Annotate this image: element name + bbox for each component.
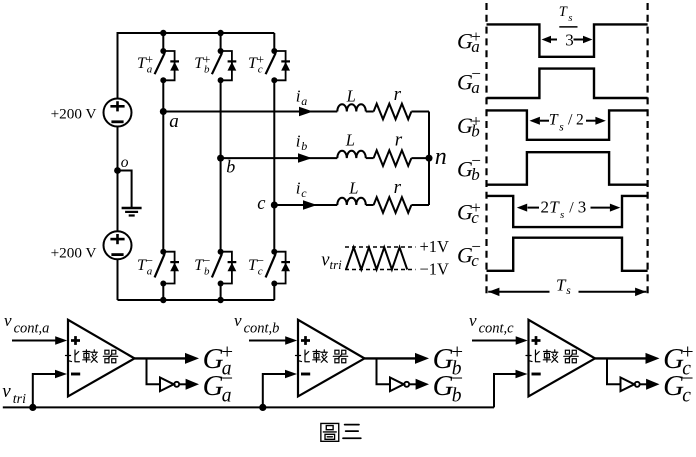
svg-text:b: b xyxy=(471,165,480,184)
label Gb- xyxy=(433,366,464,407)
node a xyxy=(160,108,167,115)
dashed boundary line right xyxy=(646,3,648,296)
svg-text:b: b xyxy=(452,386,462,407)
label +200 V (upper source) xyxy=(51,106,97,123)
antiparallel diode of Ta- xyxy=(170,262,179,271)
label r xyxy=(394,84,402,105)
node b xyxy=(217,155,224,162)
antiparallel diode of Ta+ xyxy=(170,61,179,70)
label Gc- xyxy=(457,237,481,270)
junction dot top rail leg b xyxy=(217,30,223,36)
ground symbol xyxy=(122,208,142,216)
label v_cont,b xyxy=(234,311,279,337)
svg-text:tri: tri xyxy=(330,257,343,272)
antiparallel diode of Tc+ xyxy=(281,61,290,70)
wire b to n bus xyxy=(411,157,429,159)
svg-text:c: c xyxy=(257,194,266,214)
svg-text:r: r xyxy=(394,84,402,105)
dimension Ts full period xyxy=(488,276,646,298)
label v_cont,a xyxy=(4,311,49,337)
wire neutral vertical xyxy=(428,112,430,206)
svg-text:c: c xyxy=(471,251,479,270)
svg-text:a: a xyxy=(471,78,480,97)
wire leg a lower stub xyxy=(162,284,164,301)
svg-text:3: 3 xyxy=(578,198,587,217)
svg-text:/: / xyxy=(568,112,573,129)
waveform Gc+ xyxy=(487,196,648,227)
label +200 V (lower source) xyxy=(51,244,97,261)
switch Ta- xyxy=(155,249,175,287)
wire c to n bus xyxy=(411,204,429,206)
svg-text:c: c xyxy=(258,265,263,277)
svg-text:T: T xyxy=(549,198,560,217)
waveform Gb- xyxy=(487,152,648,185)
svg-text:a: a xyxy=(301,94,307,108)
junction dot v_tri to comparator a xyxy=(29,404,36,411)
current arrow i_a xyxy=(299,107,313,116)
dashed boundary line left xyxy=(485,3,487,296)
svg-text:b: b xyxy=(204,265,210,277)
label c xyxy=(257,194,266,214)
svg-text:+1V: +1V xyxy=(420,237,450,256)
label Gb+ xyxy=(433,340,464,380)
label i_b xyxy=(296,131,308,153)
dimension 2Ts/3 xyxy=(517,198,621,222)
wire left branch upper xyxy=(117,32,119,99)
label Gc+ xyxy=(457,198,481,227)
svg-text:r: r xyxy=(394,177,402,198)
svg-text:s: s xyxy=(568,13,572,24)
waveform Ga+ xyxy=(487,24,648,56)
label a xyxy=(169,111,179,132)
label b xyxy=(226,157,235,177)
svg-text:i: i xyxy=(296,178,301,197)
wire to ground xyxy=(118,171,132,208)
waveform Gc- xyxy=(487,238,648,271)
label L xyxy=(348,178,358,197)
voltage source V1 +200V xyxy=(104,99,132,127)
node c xyxy=(271,202,278,209)
wire top DC rail xyxy=(118,32,275,34)
label Ga- xyxy=(203,366,234,407)
svg-text:b: b xyxy=(471,122,480,141)
antiparallel diode of Tb+ xyxy=(228,61,237,70)
svg-text:−1V: −1V xyxy=(420,260,450,279)
caption Figure 3 (san) xyxy=(343,425,361,439)
svg-text:b: b xyxy=(204,63,210,75)
node n xyxy=(426,155,433,162)
triangular carrier wave xyxy=(346,247,407,269)
v_tri -1V dashed level xyxy=(345,269,416,271)
v_tri +1V dashed level xyxy=(345,246,416,248)
svg-text:a: a xyxy=(169,111,179,132)
resistor r xyxy=(366,104,412,120)
svg-text:+200 V: +200 V xyxy=(51,244,97,261)
op-amp comparator (b) xyxy=(298,320,365,397)
label -1V xyxy=(420,260,450,279)
svg-text:s: s xyxy=(566,285,571,297)
wire leg c upper stub xyxy=(273,33,275,51)
label Ga+ xyxy=(457,27,481,56)
wire left branch lower xyxy=(117,259,119,300)
svg-text:T: T xyxy=(549,112,559,129)
label Ga+ xyxy=(203,340,234,380)
svg-text:c: c xyxy=(301,186,307,200)
label L xyxy=(346,86,356,105)
logic inverter (c) xyxy=(621,378,660,392)
caption Figure 3 (tu) xyxy=(321,423,339,441)
junction dot bottom rail leg b xyxy=(217,297,223,303)
wire leg c middle xyxy=(273,80,275,251)
junction dot top rail leg a xyxy=(160,30,166,36)
wire leg b upper stub xyxy=(220,33,222,51)
current arrow i_b xyxy=(298,153,312,163)
label comparator text (c) xyxy=(526,350,578,363)
label Tb- xyxy=(194,253,210,277)
svg-text:2: 2 xyxy=(576,112,584,129)
branch wire to inverter (b) xyxy=(377,358,390,384)
switch Tc- xyxy=(266,249,286,287)
label i_a xyxy=(296,86,308,108)
label i_c xyxy=(296,178,308,200)
branch wire to inverter (c) xyxy=(607,358,620,384)
label Gb- xyxy=(457,151,481,184)
label comparator text (b) xyxy=(295,350,347,363)
junction dot bottom rail leg a xyxy=(160,297,166,303)
label r xyxy=(395,130,403,151)
output wire Ga+ xyxy=(135,353,200,364)
svg-text:tri: tri xyxy=(13,392,26,407)
wire leg b middle xyxy=(220,80,222,251)
svg-text:/: / xyxy=(569,200,574,217)
waveform Gb+ xyxy=(487,110,648,139)
label Ta- xyxy=(137,253,153,277)
current arrow i_c xyxy=(303,200,317,210)
switch Ta+ xyxy=(155,48,175,83)
svg-text:s: s xyxy=(559,122,564,134)
svg-text:2: 2 xyxy=(541,198,550,217)
svg-text:s: s xyxy=(560,209,564,221)
svg-text:i: i xyxy=(296,131,301,150)
svg-text:a: a xyxy=(222,386,232,407)
wire v_tri to comparator c minus input xyxy=(494,370,528,408)
antiparallel diode of Tc- xyxy=(281,262,290,271)
label Ta+ xyxy=(137,52,153,76)
svg-text:L: L xyxy=(348,178,358,197)
op-amp comparator (c) xyxy=(529,320,596,397)
svg-text:b: b xyxy=(301,139,307,153)
svg-text:v: v xyxy=(2,381,11,402)
wire leg a upper stub xyxy=(162,33,164,51)
input arrow v_cont,a xyxy=(12,336,67,345)
svg-text:a: a xyxy=(147,265,153,277)
op-amp comparator (a) xyxy=(68,320,135,397)
output wire Gc+ xyxy=(595,353,660,364)
label Gc- xyxy=(663,366,694,407)
dimension Ts/2 xyxy=(530,112,606,134)
label comparator text (a) xyxy=(65,350,117,363)
switch Tb+ xyxy=(212,48,232,83)
wire bottom DC rail xyxy=(118,299,275,301)
wire leg c lower stub xyxy=(273,284,275,301)
resistor r xyxy=(366,197,412,213)
label +1V xyxy=(420,237,450,256)
wire phase c output xyxy=(274,204,337,206)
voltage source V2 +200V xyxy=(104,231,132,259)
label Gc+ xyxy=(663,340,694,380)
wire phase b output xyxy=(221,157,338,159)
node o xyxy=(114,167,121,174)
svg-text:c: c xyxy=(682,386,691,407)
svg-text:T: T xyxy=(559,4,568,20)
svg-text:n: n xyxy=(435,144,447,170)
svg-text:v: v xyxy=(234,311,242,330)
label r xyxy=(394,177,402,198)
svg-text:o: o xyxy=(121,154,129,171)
waveform Ga- xyxy=(487,69,648,98)
label Tb+ xyxy=(194,52,210,76)
svg-text:L: L xyxy=(346,86,356,105)
wire leg a middle xyxy=(162,80,164,251)
logic inverter (b) xyxy=(390,378,429,392)
resistor r xyxy=(366,150,412,166)
svg-text:L: L xyxy=(345,131,355,150)
wire v_tri bus xyxy=(3,406,494,408)
label Tc+ xyxy=(248,52,264,76)
label o xyxy=(121,154,129,171)
svg-text:cont,b: cont,b xyxy=(244,321,280,337)
logic inverter (a) xyxy=(160,378,199,392)
svg-text:i: i xyxy=(296,86,301,105)
wire a to n bus xyxy=(411,111,429,113)
inductor L xyxy=(337,104,366,111)
antiparallel diode of Tb- xyxy=(228,262,237,271)
svg-text:v: v xyxy=(469,311,477,330)
svg-text:a: a xyxy=(147,63,153,75)
input arrow v_cont,c xyxy=(472,336,528,345)
label v_cont,c xyxy=(469,311,514,337)
svg-text:cont,a: cont,a xyxy=(14,321,50,337)
label Gb+ xyxy=(457,111,481,140)
wire leg b lower stub xyxy=(220,284,222,301)
switch Tb- xyxy=(212,249,232,287)
svg-text:cont,c: cont,c xyxy=(479,321,515,337)
svg-text:c: c xyxy=(258,63,263,75)
wire phase a output xyxy=(163,111,337,113)
wire between sources xyxy=(117,127,119,232)
svg-text:3: 3 xyxy=(565,31,574,50)
inductor L xyxy=(337,151,366,158)
switch Tc+ xyxy=(266,48,286,83)
output wire Gb+ xyxy=(365,353,430,364)
svg-text:a: a xyxy=(471,37,480,56)
svg-text:+200 V: +200 V xyxy=(51,106,97,123)
svg-text:r: r xyxy=(395,130,403,151)
label v_tri (carrier) xyxy=(321,250,342,272)
inductor L xyxy=(337,198,366,205)
wire v_tri to comparator a minus input xyxy=(33,370,67,408)
label n xyxy=(435,144,447,170)
svg-text:v: v xyxy=(4,311,12,330)
label L xyxy=(345,131,355,150)
label v_tri (bus) xyxy=(2,381,26,407)
svg-text:b: b xyxy=(226,157,235,177)
branch wire to inverter (a) xyxy=(147,358,160,384)
wire v_tri to comparator b minus input xyxy=(263,370,297,408)
input arrow v_cont,b xyxy=(249,336,297,345)
dimension Ts/3 fraction xyxy=(542,4,593,49)
svg-text:c: c xyxy=(471,208,479,227)
label Tc- xyxy=(248,253,264,277)
label Ga- xyxy=(457,64,481,97)
junction dot v_tri to comparator b xyxy=(259,404,266,411)
